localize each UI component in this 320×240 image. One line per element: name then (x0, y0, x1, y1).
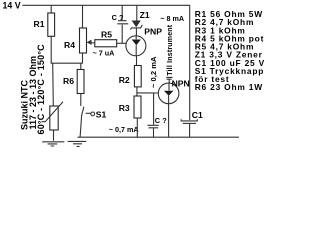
svg-text:S1: S1 (96, 109, 107, 119)
svg-text:R6 23 Ohm 1W: R6 23 Ohm 1W (195, 82, 263, 92)
svg-text:Till Instrument: Till Instrument (167, 24, 174, 76)
resistor R3 (119, 96, 141, 137)
zener diode Z1 (130, 5, 150, 36)
svg-text:~ 8 mA: ~ 8 mA (160, 14, 184, 23)
svg-text:C1: C1 (192, 110, 203, 120)
wire R5 to PNP base (117, 42, 127, 44)
wire R2 to R3 and base tap (137, 87, 158, 96)
wire top 14V rail (22, 4, 190, 6)
svg-text:~ 0,2 mA: ~ 0,2 mA (149, 56, 158, 88)
resistor R5 (95, 29, 117, 47)
capacitor C1 electrolytic (181, 5, 203, 137)
svg-text:C ?: C ? (155, 116, 167, 125)
wire bottom ground rail (78, 136, 240, 138)
transistor Q1 PNP (126, 26, 162, 56)
svg-text:R3: R3 (119, 103, 130, 113)
wire NPN emitter to rail (168, 104, 170, 138)
resistor R1 (34, 5, 55, 63)
svg-text:14 V: 14 V (3, 1, 21, 11)
ground main (68, 141, 87, 146)
terminal to instrument (166, 77, 172, 83)
wire PNP collector to R2 (136, 56, 138, 66)
resistor R2 (119, 66, 142, 87)
thermistor NTC (42, 63, 64, 141)
svg-text:NPN: NPN (172, 78, 190, 88)
svg-text:R4: R4 (64, 40, 75, 50)
svg-text:R2: R2 (119, 75, 130, 85)
potentiometer R4 (64, 5, 95, 63)
svg-text:R1: R1 (34, 19, 45, 29)
svg-text:C ?: C ? (112, 13, 124, 22)
ground under thermistor (42, 142, 64, 146)
transistor Q2 NPN (158, 78, 189, 103)
svg-text:60°C - 120°C - 150°C: 60°C - 120°C - 150°C (36, 44, 46, 135)
switch S1 pushbutton (80, 107, 106, 138)
svg-text:~ 0,7 mA: ~ 0,7 mA (109, 125, 139, 134)
wire connector node (51, 62, 83, 64)
svg-text:~ 7 uA: ~ 7 uA (93, 48, 115, 57)
capacitor C? top (112, 5, 129, 43)
resistor R6 (63, 63, 84, 106)
svg-text:R6: R6 (63, 76, 74, 86)
svg-text:Z1: Z1 (140, 10, 150, 20)
svg-text:PNP: PNP (144, 26, 162, 36)
legend component list (195, 9, 265, 92)
capacitor C? bottom (147, 93, 167, 137)
svg-text:R5: R5 (101, 29, 112, 39)
